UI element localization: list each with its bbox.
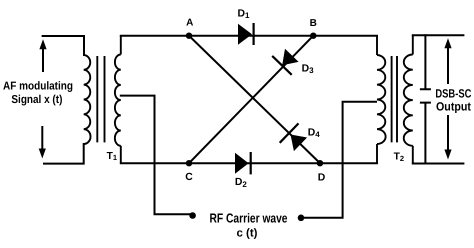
diode D1 bbox=[238, 23, 254, 45]
svg-text:RF Carrier wave: RF Carrier wave bbox=[210, 210, 288, 225]
wire T1 center tap to carrier bbox=[121, 96, 190, 215]
svg-text:D4: D4 bbox=[308, 128, 321, 140]
wire diagonal C to B bbox=[189, 36, 313, 164]
svg-text:D1: D1 bbox=[238, 8, 251, 20]
node C bbox=[186, 160, 192, 166]
label AF modulating Signal x (t) bbox=[3, 80, 73, 106]
svg-text:D3: D3 bbox=[302, 64, 315, 76]
transformer T1 primary winding bbox=[84, 36, 91, 144]
output terminal line upper bbox=[421, 35, 430, 89]
node D bbox=[317, 160, 323, 166]
svg-text:c (t): c (t) bbox=[237, 227, 258, 239]
svg-text:Signal x (t): Signal x (t) bbox=[11, 94, 62, 106]
transformer T2 primary winding bbox=[377, 36, 386, 164]
svg-text:D2: D2 bbox=[235, 177, 248, 189]
label DSB-SC Output bbox=[435, 86, 471, 113]
transformer T1 secondary winding bbox=[115, 36, 121, 163]
output terminal line lower bbox=[421, 103, 430, 164]
transformer T2 secondary winding bbox=[404, 35, 413, 163]
output arrow (double headed) bbox=[444, 38, 451, 159]
node B bbox=[310, 33, 316, 39]
carrier node left bbox=[189, 212, 196, 219]
wire output top bbox=[413, 34, 464, 36]
svg-text:AF modulating: AF modulating bbox=[3, 80, 73, 92]
AC source arrow up bbox=[39, 39, 46, 72]
node A bbox=[186, 33, 192, 39]
svg-text:B: B bbox=[310, 18, 317, 29]
label RF Carrier wave c (t) bbox=[210, 210, 288, 239]
wire AF source box bottom bbox=[44, 144, 84, 164]
diode D2 bbox=[235, 152, 251, 174]
wire diagonal A to D bbox=[189, 36, 320, 164]
wire output bottom bbox=[413, 163, 464, 165]
wire top rail bbox=[121, 35, 377, 37]
svg-text:DSB-SC: DSB-SC bbox=[435, 86, 471, 100]
wire AF source box top bbox=[43, 36, 84, 55]
wire bottom rail bbox=[121, 162, 377, 164]
transformer T2 core bbox=[392, 56, 397, 142]
svg-text:A: A bbox=[186, 18, 193, 29]
carrier node right bbox=[298, 215, 305, 222]
diode D3 bbox=[272, 49, 298, 75]
wire carrier to T2 center tap bbox=[303, 102, 376, 218]
svg-text:C: C bbox=[185, 172, 193, 183]
AC source arrow down bbox=[39, 126, 46, 159]
svg-text:T1: T1 bbox=[107, 151, 117, 162]
svg-text:Output: Output bbox=[436, 99, 471, 113]
diode D4 bbox=[280, 123, 307, 151]
transformer T1 core bbox=[97, 56, 104, 142]
svg-text:D: D bbox=[318, 173, 326, 184]
svg-text:T2: T2 bbox=[394, 152, 404, 163]
